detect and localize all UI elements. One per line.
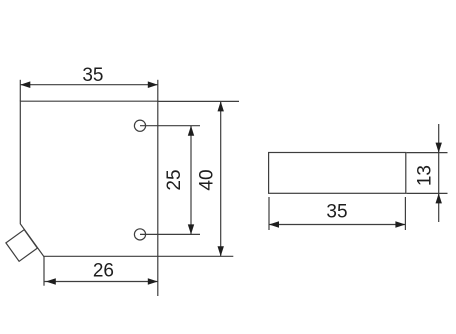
svg-text:25: 25 — [164, 169, 185, 190]
arrowhead 13 bottom (points up) — [436, 193, 442, 203]
side view rectangle — [269, 153, 406, 194]
arrowhead 40 up — [218, 101, 224, 111]
svg-text:40: 40 — [197, 169, 218, 190]
arrowhead 25 down — [188, 224, 194, 234]
hole bottom — [134, 229, 145, 240]
dimension line 35 top — [20, 84, 158, 86]
arrowhead 26 right — [148, 278, 158, 285]
front view body outline — [20, 101, 158, 256]
witness line 13 top — [407, 152, 448, 154]
connector square (rotated, on chamfer) — [6, 230, 38, 262]
witness line 26 left — [43, 256, 45, 285]
witness bottom edge extension right — [158, 255, 234, 257]
dimension line 13 — [438, 124, 440, 222]
witness line 35 right-view left — [268, 197, 270, 230]
leader from top hole — [140, 125, 200, 127]
witness line 35 right-view right — [404, 197, 406, 230]
svg-text:35: 35 — [326, 201, 347, 222]
witness line 13 bottom — [407, 192, 448, 194]
dimension line 40 — [220, 101, 222, 256]
arrowhead 35-right left — [269, 221, 279, 228]
dimension line 26 — [44, 281, 158, 283]
witness line top-right — [157, 80, 159, 101]
svg-text:35: 35 — [82, 65, 103, 86]
arrowhead 40 down — [218, 246, 224, 256]
arrowhead 35-right right — [395, 221, 405, 228]
arrowhead 35-top right — [148, 81, 158, 88]
hole top — [134, 120, 145, 131]
arrowhead 25 up — [188, 126, 194, 136]
witness line 26 right (right edge extended) — [157, 256, 159, 296]
dimension line 35 right view — [269, 224, 405, 226]
dimension line 25 — [190, 126, 192, 235]
arrowhead 35-top left — [20, 81, 30, 88]
svg-text:13: 13 — [414, 165, 435, 186]
leader from bottom hole — [140, 233, 200, 235]
arrowhead 26 left — [46, 278, 56, 285]
arrowhead 13 top (points down) — [436, 143, 442, 153]
witness line top-left — [19, 80, 21, 101]
svg-text:26: 26 — [93, 261, 114, 282]
witness top edge extension right — [158, 100, 239, 102]
